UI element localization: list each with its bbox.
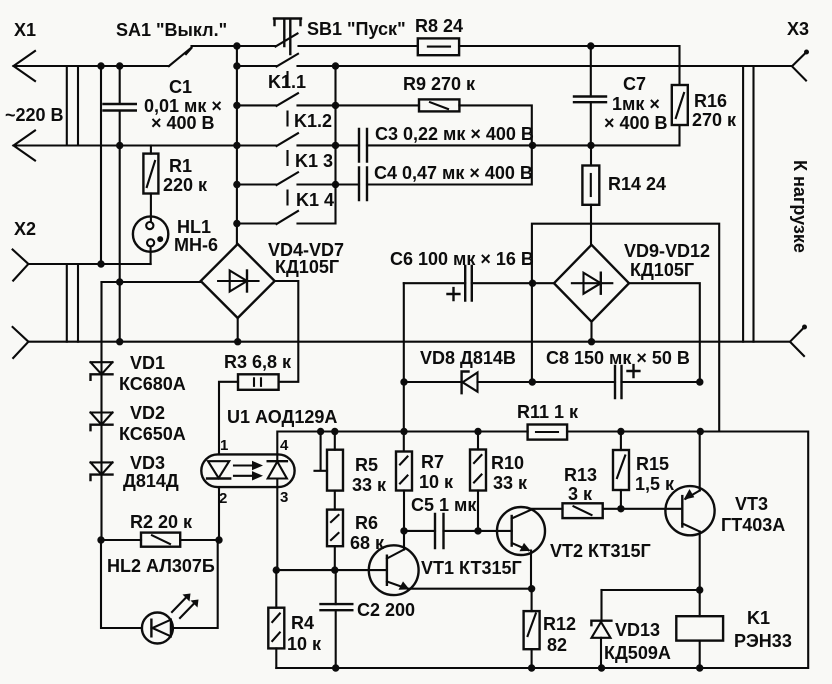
- capacitor C2 200: [321, 570, 416, 668]
- svg-text:C7: C7: [623, 74, 646, 94]
- svg-text:U1 АОД129А: U1 АОД129А: [227, 407, 337, 427]
- wire R3 to U1 pin 1: [219, 382, 238, 455]
- node rail K1.3 left: [233, 142, 240, 149]
- svg-text:K1 4: K1 4: [296, 190, 334, 210]
- optocoupler U1 АОД129А: [201, 407, 337, 487]
- bridge rectifier VD4-VD7 КД105Г: [201, 240, 344, 318]
- wire C4 up to C3 line: [367, 145, 532, 184]
- svg-text:1: 1: [220, 437, 228, 454]
- svg-text:82: 82: [547, 635, 567, 655]
- wire SB1 to R8: [299, 45, 418, 47]
- resistor R8 24: [415, 16, 463, 55]
- svg-text:ГТ403А: ГТ403А: [721, 515, 785, 535]
- wire X3 pair verticals: [743, 66, 753, 342]
- node K1.1 right rail: [332, 62, 339, 69]
- svg-text:R4: R4: [291, 613, 314, 633]
- svg-text:3: 3: [280, 489, 288, 506]
- node C3 C4 R9 joint: [529, 142, 536, 149]
- svg-text:K1: K1: [747, 608, 770, 628]
- resistor R3 6,8 к: [224, 352, 292, 390]
- svg-text:VD2: VD2: [130, 403, 165, 423]
- contact K1.2: [237, 93, 332, 131]
- wire C1 down to X2 bottom: [119, 146, 121, 342]
- wire right contact rail: [334, 66, 336, 185]
- wire VT3 collector down: [699, 532, 701, 591]
- resistor R11 1 к: [517, 402, 579, 440]
- wire U1 pin 4 to R11 line: [277, 432, 527, 462]
- svg-text:4: 4: [280, 437, 289, 454]
- wire R11 node line stub: [315, 432, 328, 471]
- node rail VD4 bottom: [234, 338, 241, 345]
- node R6 bottom: [331, 566, 338, 573]
- zener VD2 КС650А: [91, 403, 186, 444]
- node K1.2 right rail: [332, 102, 339, 109]
- connector X3 pin 2: [790, 325, 807, 357]
- node VT3 collector K1: [696, 586, 703, 593]
- frame secondary bridge: [532, 224, 719, 432]
- wire R7 bottom to C5 line: [403, 491, 405, 531]
- contact K1 4: [237, 172, 334, 210]
- node R2 right pin2: [215, 536, 222, 543]
- svg-text:КС680А: КС680А: [119, 374, 186, 394]
- node R7 top: [400, 428, 407, 435]
- resistor R13 3 к: [563, 465, 603, 518]
- resistor R7 10 к: [396, 452, 454, 493]
- connector X2 pin 1: [13, 219, 36, 281]
- node C1 bottom: [116, 142, 123, 149]
- node R2 left: [97, 536, 104, 543]
- wire VT1 collector up: [403, 531, 405, 550]
- zener VD13 КД509А: [591, 590, 670, 668]
- svg-text:R14 24: R14 24: [608, 174, 666, 194]
- wire left contact rail: [236, 46, 238, 244]
- node R14 top: [587, 142, 594, 149]
- resistor R10 33 к: [470, 432, 528, 531]
- capacitor C4 0,47 мк: [359, 163, 533, 200]
- svg-text:VD1: VD1: [130, 353, 165, 373]
- svg-text:C5 1 мк: C5 1 мк: [411, 495, 477, 515]
- svg-text:R8 24: R8 24: [415, 16, 463, 36]
- resistor R2 20 к: [130, 512, 193, 547]
- resistor R16 270 к: [672, 85, 737, 130]
- wire C3 to R16 bottom corner: [367, 125, 680, 145]
- node rail K1.2 left: [233, 102, 240, 109]
- resistor R15 1,5 к: [613, 432, 675, 509]
- wire R13 to VT3 base: [603, 508, 683, 510]
- capacitor C7 1мк: [574, 46, 668, 145]
- node rail fifth left: [233, 220, 240, 227]
- svg-text:× 400 В: × 400 В: [151, 113, 215, 133]
- node SB1 line / rail: [233, 42, 240, 49]
- node rail K1.1 left: [233, 62, 240, 69]
- wire VT1 base line: [276, 569, 387, 571]
- wire fifth contact up to rail: [298, 185, 336, 224]
- wire K1.2 to R9: [298, 104, 420, 106]
- node C7 top: [587, 42, 594, 49]
- wire VT3 emitter from R11 line: [699, 432, 701, 491]
- capacitor C8 150 мк: [546, 348, 690, 398]
- svg-text:X1: X1: [14, 20, 36, 40]
- node rail K1: [696, 664, 703, 671]
- switch SA1 "Выкл.": [116, 20, 227, 66]
- wire K1.4 to C4: [298, 183, 360, 185]
- svg-text:МН-6: МН-6: [174, 235, 218, 255]
- node stub top: [317, 428, 324, 435]
- svg-text:КС650А: КС650А: [119, 424, 186, 444]
- resistor R4 10 к: [268, 570, 322, 668]
- svg-text:X2: X2: [14, 219, 36, 239]
- svg-text:R3 6,8 к: R3 6,8 к: [224, 352, 292, 372]
- capacitor C3 0,22 мк: [359, 124, 534, 162]
- svg-text:К нагрузке: К нагрузке: [790, 160, 810, 253]
- wire VT2 collector line to R13: [532, 508, 563, 510]
- capacitor C1 0,01 мк: [104, 66, 222, 146]
- wire VD8 C8 line: [404, 381, 700, 383]
- svg-text:HL2 АЛ307Б: HL2 АЛ307Б: [107, 556, 215, 576]
- zener VD1 КС680А: [91, 353, 186, 394]
- wire U1 pin 3 down: [276, 479, 278, 571]
- node VD8 left: [400, 378, 407, 385]
- svg-text:R1: R1: [169, 156, 192, 176]
- connector X2 pin 2: [13, 327, 29, 358]
- node rail C1: [116, 338, 123, 345]
- node emitter junction: [528, 585, 535, 592]
- resistor R6 68 к: [327, 510, 385, 570]
- wire VD4 bottom vertex to rail: [237, 318, 239, 342]
- svg-text:1,5 к: 1,5 к: [635, 474, 675, 494]
- svg-text:SB1 "Пуск": SB1 "Пуск": [307, 19, 406, 39]
- svg-text:33 к: 33 к: [493, 473, 528, 493]
- svg-text:VT2 КТ315Г: VT2 КТ315Г: [550, 541, 651, 561]
- connector X1 pin 2 arrow: [14, 131, 36, 161]
- node R13 R15 joint: [617, 505, 624, 512]
- wire R9 to C3 line corner: [459, 105, 531, 145]
- svg-text:R15: R15: [636, 454, 669, 474]
- wire K1.3 to C3: [298, 144, 360, 146]
- svg-text:C8 150 мк × 50 В: C8 150 мк × 50 В: [546, 348, 690, 368]
- contact K1.1: [237, 54, 306, 92]
- svg-text:K1.2: K1.2: [294, 111, 332, 131]
- wire R2 line: [101, 539, 219, 541]
- svg-text:HL1: HL1: [177, 217, 211, 237]
- transistor VT2 КТ315Г: [497, 507, 651, 561]
- svg-text:VD13: VD13: [615, 620, 660, 640]
- svg-text:КД509А: КД509А: [604, 643, 671, 663]
- svg-text:10 к: 10 к: [419, 472, 454, 492]
- node rail K1.4 left: [233, 181, 240, 188]
- svg-text:~220 В: ~220 В: [5, 105, 64, 125]
- svg-text:R13: R13: [564, 465, 597, 485]
- node R10 bottom: [474, 527, 481, 534]
- wire zener chain segments: [100, 374, 102, 540]
- transistor VT3 ГТ403А: [665, 486, 785, 535]
- svg-text:× 400 В: × 400 В: [604, 113, 668, 133]
- wire VD4 right vertex to R3: [275, 281, 299, 382]
- resistor R9 270 к: [403, 74, 476, 111]
- bridge rectifier VD9-VD12 КД105Г: [554, 241, 710, 322]
- resistor R5 33 к: [327, 432, 387, 510]
- node R5 top: [331, 428, 338, 435]
- relay K1 РЭН33: [676, 590, 792, 668]
- capacitor C5 1 мк: [404, 495, 512, 548]
- wire VD9 right vertex down: [629, 283, 700, 382]
- svg-text:R2 20 к: R2 20 к: [130, 512, 193, 532]
- wire VT1 emitter to VT2 emitter: [408, 588, 532, 590]
- svg-text:R10: R10: [491, 453, 524, 473]
- svg-text:2: 2: [219, 490, 227, 507]
- resistor R12 82: [524, 589, 576, 668]
- svg-text:C4 0,47 мк × 400 В: C4 0,47 мк × 400 В: [374, 163, 533, 183]
- node K1.3 right rail: [332, 142, 339, 149]
- svg-text:РЭН33: РЭН33: [734, 631, 792, 651]
- wire K1.1 to X3: [298, 65, 793, 67]
- wire bottom rail: [276, 667, 808, 669]
- svg-text:R5: R5: [355, 455, 378, 475]
- svg-text:K1 3: K1 3: [295, 151, 333, 171]
- wire C6 line: [404, 282, 554, 284]
- connector X3 pin 1: [787, 19, 809, 81]
- svg-text:КД105Г: КД105Г: [275, 257, 339, 277]
- node rail VD9 bottom: [588, 338, 595, 345]
- node VT3 emitter column: [697, 428, 704, 435]
- wire bottom AC rail: [28, 341, 790, 343]
- transistor VT1 КТ315Г: [369, 545, 522, 595]
- node rail C2: [332, 664, 339, 671]
- node X1 top / vertical x101: [97, 62, 104, 69]
- svg-text:VD9-VD12: VD9-VD12: [624, 241, 710, 261]
- wire VD9 bottom to rail: [590, 322, 592, 342]
- wire C6 corner down / R7 column: [403, 283, 405, 451]
- wire AC corner down to VD1: [100, 282, 102, 362]
- svg-text:Д814Д: Д814Д: [123, 471, 179, 491]
- svg-text:КД105Г: КД105Г: [630, 260, 694, 280]
- wire VT2 emitter down: [530, 551, 532, 589]
- wire AC line to bridge left: [102, 281, 201, 283]
- wire mechanical link dashed: [286, 72, 288, 205]
- svg-text:1мк ×: 1мк ×: [612, 94, 660, 114]
- contact K1 3: [277, 133, 334, 171]
- svg-text:3 к: 3 к: [568, 484, 593, 504]
- node rail R12: [528, 664, 535, 671]
- node VD8 frame left: [529, 378, 536, 385]
- node AC line C1 column: [116, 278, 123, 285]
- node C6 frame left: [529, 280, 536, 287]
- svg-text:VT1 КТ315Г: VT1 КТ315Г: [421, 558, 522, 578]
- node K1.4 right rail: [332, 181, 339, 188]
- wire X1 pair verticals: [67, 66, 78, 342]
- node R10 top: [474, 428, 481, 435]
- svg-text:VT3: VT3: [735, 494, 768, 514]
- resistor R1 220 к: [143, 146, 208, 196]
- capacitor C6 100 мк: [390, 249, 534, 301]
- wire X2 top line: [28, 263, 150, 265]
- node pin3 base line: [273, 566, 280, 573]
- resistor R14 24: [582, 145, 666, 244]
- wire R8 to R16 top corner: [459, 46, 679, 85]
- lamp HL1 МН-6: [133, 194, 218, 265]
- wire SA1 output to SB1: [192, 45, 276, 47]
- svg-text:X3: X3: [787, 19, 809, 39]
- wire X1 bottom line to K1.3: [14, 144, 277, 146]
- node X2 top vertical: [97, 260, 104, 267]
- wire X1 top down to X2 top: [100, 66, 102, 264]
- wire U1 pin 2 down: [218, 487, 220, 540]
- svg-text:VD8 Д814В: VD8 Д814В: [420, 348, 516, 368]
- contact K1 fifth: [237, 211, 298, 224]
- svg-text:10 к: 10 к: [287, 634, 322, 654]
- svg-text:270 к: 270 к: [692, 110, 737, 130]
- svg-text:C6 100 мк × 16 В: C6 100 мк × 16 В: [390, 249, 534, 269]
- node rail VD13: [598, 664, 605, 671]
- led HL2 АЛ307Б: [101, 540, 218, 644]
- node R15 top: [617, 428, 624, 435]
- svg-text:C2 200: C2 200: [357, 600, 415, 620]
- svg-text:33 к: 33 к: [352, 475, 387, 495]
- wire R11 line right: [567, 432, 808, 669]
- connector X1 pin 1 arrow: [14, 20, 37, 81]
- node C5 left: [400, 527, 407, 534]
- node X1 top / C1: [116, 62, 123, 69]
- svg-text:R9 270 к: R9 270 к: [403, 74, 476, 94]
- svg-text:R12: R12: [543, 614, 576, 634]
- svg-text:SA1 "Выкл.": SA1 "Выкл.": [116, 20, 227, 40]
- svg-text:R7: R7: [421, 452, 444, 472]
- svg-text:R6: R6: [355, 513, 378, 533]
- zener VD8 Д814В: [420, 348, 516, 393]
- svg-text:VD3: VD3: [130, 453, 165, 473]
- svg-text:220 к: 220 к: [163, 175, 208, 195]
- node C8 right: [696, 378, 703, 385]
- svg-text:R16: R16: [694, 91, 727, 111]
- pushbutton SB1 "Пуск": [274, 19, 406, 55]
- svg-text:R11 1 к: R11 1 к: [517, 402, 579, 422]
- wire X1 top to SA1: [14, 65, 169, 67]
- svg-text:C1: C1: [169, 77, 192, 97]
- svg-text:C3 0,22 мк × 400 В: C3 0,22 мк × 400 В: [375, 124, 534, 144]
- zener VD3 Д814Д: [91, 453, 179, 491]
- wire VD13 top line: [602, 589, 700, 591]
